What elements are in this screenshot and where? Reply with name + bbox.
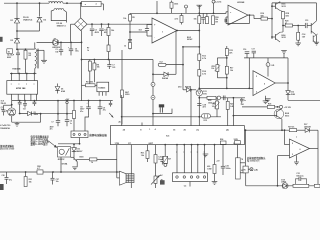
svg-text:4148: 4148: [291, 93, 295, 96]
svg-text:50V 10u: 50V 10u: [296, 175, 304, 177]
svg-text:IC2: IC2: [160, 62, 163, 64]
svg-text:104: 104: [241, 103, 244, 106]
svg-text:(+12V): (+12V): [216, 1, 222, 3]
svg-text:3: 3: [256, 76, 257, 78]
svg-text:103: 103: [23, 108, 26, 110]
svg-text:TA8435: TA8435: [98, 86, 106, 89]
svg-text:10k: 10k: [212, 106, 215, 108]
svg-text:R26: R26: [268, 104, 271, 106]
svg-text:D10: D10: [178, 87, 181, 89]
svg-text:1N5408/3A: 1N5408/3A: [0, 127, 10, 130]
svg-text:3: 3: [292, 154, 293, 156]
svg-text:6: 6: [300, 149, 301, 151]
svg-text:47u: 47u: [80, 110, 83, 113]
svg-text:1000u: 1000u: [226, 168, 231, 170]
svg-text:D7: D7: [54, 38, 56, 40]
svg-text:473: 473: [203, 106, 206, 109]
svg-text:5V6: 5V6: [203, 93, 206, 95]
svg-text:2W06: 2W06: [281, 182, 286, 184]
svg-text:78: 78: [241, 159, 243, 161]
svg-text:103: 103: [139, 30, 142, 32]
svg-text:10k: 10k: [211, 68, 214, 70]
svg-text:+VD: +VD: [271, 65, 275, 67]
svg-text:1N4007x1: 1N4007x1: [57, 25, 67, 28]
svg-text:16V8A: 16V8A: [62, 163, 68, 166]
svg-text:9014F: 9014F: [187, 38, 193, 41]
svg-text:IN4148: IN4148: [162, 77, 168, 80]
svg-text:o: o: [18, 84, 19, 86]
svg-text:2W06: 2W06: [34, 114, 38, 116]
svg-text:C26: C26: [2, 175, 5, 177]
svg-text:C17: C17: [252, 49, 255, 51]
svg-text:R5: R5: [132, 17, 134, 19]
svg-text:820: 820: [286, 15, 289, 17]
svg-text:680: 680: [261, 16, 264, 18]
svg-text:10k: 10k: [230, 70, 233, 72]
svg-text:47u: 47u: [9, 179, 12, 182]
svg-text:2.4k: 2.4k: [230, 105, 234, 108]
svg-text:1u: 1u: [70, 123, 72, 125]
svg-text:o: o: [11, 84, 12, 86]
svg-text:1W: 1W: [215, 22, 218, 24]
svg-text:KPW 188: KPW 188: [16, 88, 26, 90]
svg-text:D13: D13: [204, 120, 207, 122]
svg-text:IN4007: IN4007: [76, 150, 82, 153]
svg-text:6: 6: [264, 84, 265, 86]
svg-text:(1): (1): [197, 129, 200, 131]
svg-text:IN4148: IN4148: [185, 86, 191, 89]
svg-text:GBT: GBT: [148, 143, 153, 145]
svg-text:+: +: [68, 47, 69, 49]
svg-text:LM324N: LM324N: [237, 1, 245, 4]
svg-text:R9 100k: R9 100k: [86, 81, 94, 83]
svg-text:2: 2: [292, 143, 293, 145]
svg-text:10k: 10k: [97, 67, 100, 69]
svg-text:8050: 8050: [125, 94, 129, 96]
svg-text:C7: C7: [51, 121, 53, 123]
svg-text:o: o: [34, 84, 35, 86]
svg-text:1N4007x4: 1N4007x4: [23, 19, 33, 22]
svg-text:+12 18V: +12 18V: [284, 107, 292, 109]
svg-text:1u: 1u: [244, 100, 246, 102]
svg-text:D4: D4: [6, 109, 8, 112]
svg-text:1k: 1k: [87, 50, 89, 52]
svg-text:C16: C16: [243, 49, 246, 51]
svg-text:7: 7: [296, 137, 297, 139]
svg-text:(+B): (+B): [254, 169, 258, 171]
svg-text:9013: 9013: [285, 116, 289, 118]
svg-text:2W: 2W: [28, 55, 31, 57]
svg-text:1/2W: 1/2W: [234, 139, 238, 141]
svg-text:47u: 47u: [50, 128, 53, 131]
svg-text:1k: 1k: [91, 162, 93, 164]
svg-text:100u: 100u: [75, 51, 79, 53]
svg-text:10u: 10u: [56, 181, 59, 183]
svg-text:o: o: [26, 84, 27, 86]
svg-text:高频电压输出端: 高频电压输出端: [89, 133, 107, 137]
svg-text:9012: 9012: [282, 37, 286, 39]
svg-text:R27 2k: R27 2k: [288, 126, 295, 128]
svg-text:4.7u/50 700: 4.7u/50 700: [0, 124, 10, 127]
svg-text:BG9: BG9: [80, 157, 84, 159]
svg-text:-: -: [154, 36, 155, 39]
svg-text:C15: C15: [305, 20, 308, 22]
svg-text:1: 1: [149, 129, 150, 131]
svg-text:9013: 9013: [282, 6, 286, 8]
svg-text:4.7: 4.7: [37, 167, 40, 170]
svg-text:450V: 450V: [95, 31, 100, 34]
svg-text:10u: 10u: [1, 109, 4, 111]
svg-text:HGE15B: HGE15B: [12, 68, 21, 70]
svg-text:JRC21F: JRC21F: [58, 159, 66, 161]
svg-text:R34: R34: [220, 138, 223, 141]
svg-text:47: 47: [285, 22, 287, 25]
svg-text:78L05: 78L05: [1, 103, 6, 105]
svg-text:47k: 47k: [229, 52, 232, 55]
svg-text:aaaaaaaa: aaaaaaaa: [48, 1, 55, 3]
svg-text:4148: 4148: [61, 90, 65, 93]
svg-text:2: 2: [256, 92, 257, 94]
svg-text:154: 154: [55, 50, 58, 53]
svg-text:125: 125: [112, 67, 115, 69]
svg-text:1N4148: 1N4148: [304, 126, 311, 129]
svg-text:10k: 10k: [29, 182, 32, 184]
svg-text:1/2W: 1/2W: [207, 168, 211, 170]
svg-text:47u: 47u: [103, 109, 106, 112]
svg-text:(4): (4): [226, 128, 229, 131]
